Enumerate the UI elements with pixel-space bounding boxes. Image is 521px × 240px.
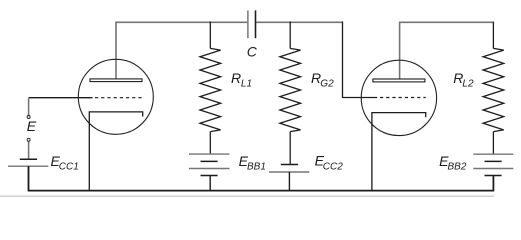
svg-text:L2: L2 [462, 79, 474, 90]
svg-text:CC1: CC1 [59, 161, 79, 172]
svg-text:R: R [231, 70, 241, 86]
svg-text:L1: L1 [241, 79, 252, 90]
svg-text:BB1: BB1 [247, 161, 266, 172]
svg-text:BB2: BB2 [448, 161, 467, 172]
svg-text:CC2: CC2 [323, 161, 343, 172]
svg-text:G2: G2 [320, 79, 334, 90]
svg-text:E: E [27, 118, 37, 134]
svg-text:C: C [247, 44, 258, 60]
